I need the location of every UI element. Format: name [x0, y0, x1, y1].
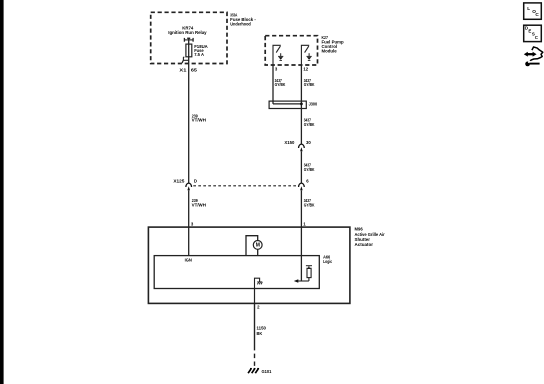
svg-text:VT/WH: VT/WH — [192, 118, 206, 123]
wire: pin 1 control into logic — [300, 227, 302, 281]
connector pin 6 — [299, 179, 310, 191]
svg-text:M: M — [256, 243, 260, 249]
svg-text:X1: X1 — [179, 68, 187, 73]
relay KR74 switch terminal — [182, 57, 189, 63]
svg-text:X150: X150 — [284, 140, 295, 145]
svg-text:Logic: Logic — [323, 259, 333, 264]
relay KR74 label — [168, 25, 207, 35]
wire: pin 3 feed inside M96 — [188, 227, 190, 256]
label: X50A Fuse Block - Underhood — [230, 13, 256, 27]
wire 1150 BK — [254, 289, 256, 366]
svg-text:12: 12 — [303, 67, 308, 72]
wire 239 VT/WH lower segment — [188, 190, 190, 227]
pin X1 65 — [179, 68, 197, 73]
label: M96 Active Grille Air Shutter Actuator — [355, 227, 385, 247]
svg-text:Underhood: Underhood — [230, 21, 251, 26]
ground G101 — [248, 368, 272, 374]
wire: X150 to connector 6 — [300, 151, 302, 183]
label: 239 VT/WH (upper) — [192, 113, 206, 122]
label: 3437 GY/BK (below J300) — [304, 118, 316, 127]
wire 3437 GY/BK lower segment — [300, 190, 302, 227]
svg-text:GY/BK: GY/BK — [304, 167, 316, 172]
svg-text:GY/BK: GY/BK — [304, 122, 316, 127]
K27 driver output (pin 12) with internal ground — [301, 45, 311, 65]
svg-text:GY/BK: GY/BK — [304, 202, 316, 207]
svg-text:IGN: IGN — [185, 257, 192, 262]
svg-text:VT/WH: VT/WH — [192, 202, 206, 207]
internal ground of A66 logic — [255, 278, 263, 288]
label: F18UA Fuse 7.5 A — [194, 44, 208, 57]
splice J300 — [269, 101, 318, 108]
svg-text:65: 65 — [191, 68, 198, 73]
resistor (pull-up in A66) — [306, 266, 312, 281]
svg-text:30: 30 — [306, 140, 311, 145]
svg-text:X125: X125 — [173, 179, 185, 184]
svg-text:J300: J300 — [309, 102, 318, 107]
connector X125 pin D — [173, 179, 197, 191]
label: 3437 GY/BK (above M96) — [304, 198, 316, 207]
fuse block X50A boundary — [151, 12, 227, 63]
svg-text:1150: 1150 — [257, 326, 267, 331]
svg-text:7.5 A: 7.5 A — [194, 52, 204, 57]
logic block A66 boundary — [154, 256, 319, 289]
svg-text:GY/BK: GY/BK — [275, 82, 287, 87]
svg-text:Module: Module — [322, 48, 338, 53]
wire: relay to fuse through fuse body — [188, 38, 190, 56]
svg-text:G101: G101 — [262, 369, 272, 374]
connector X150 pin 30 — [284, 140, 311, 151]
actuator M96 boundary — [148, 227, 350, 303]
label: 3437 GY/BK (below X150) — [304, 162, 316, 172]
button DESC — [524, 25, 542, 41]
wire: K27 pin 12 down to X150 — [300, 65, 302, 144]
label: 239 VT/WH (lower) — [192, 198, 206, 207]
relay KR74 contact — [184, 38, 193, 42]
svg-text:Ignition Run Relay: Ignition Run Relay — [168, 30, 207, 35]
svg-text:D: D — [194, 179, 197, 184]
svg-text:BK: BK — [257, 331, 264, 336]
module K27 boundary — [265, 36, 317, 65]
label: 1150 BK — [257, 326, 267, 337]
fuse F18UA — [186, 44, 192, 57]
label: A66 Logic — [323, 255, 333, 265]
svg-text:Actuator: Actuator — [355, 242, 374, 247]
svg-text:GY/BK: GY/BK — [304, 82, 316, 87]
wire 239 VT/WH upper segment — [188, 57, 190, 183]
label: 3437 GY/BK (pin 3 wire) — [275, 78, 287, 87]
label: 3437 GY/BK (pin 12 wire) — [304, 78, 316, 87]
wire: K27 pin 3 to splice J300 — [272, 65, 274, 104]
K27 driver output (pin 3) with internal ground — [273, 45, 283, 65]
motor M — [246, 236, 262, 256]
signal arrow into logic — [294, 279, 309, 283]
label: K27 Fuel Pump Control Module — [322, 35, 344, 53]
tie line connector X125 (dashed) — [193, 185, 296, 187]
svg-text:L: L — [527, 6, 530, 11]
icon: navigation double arrow with outline and wrench — [524, 47, 543, 66]
button LOC — [524, 3, 542, 19]
